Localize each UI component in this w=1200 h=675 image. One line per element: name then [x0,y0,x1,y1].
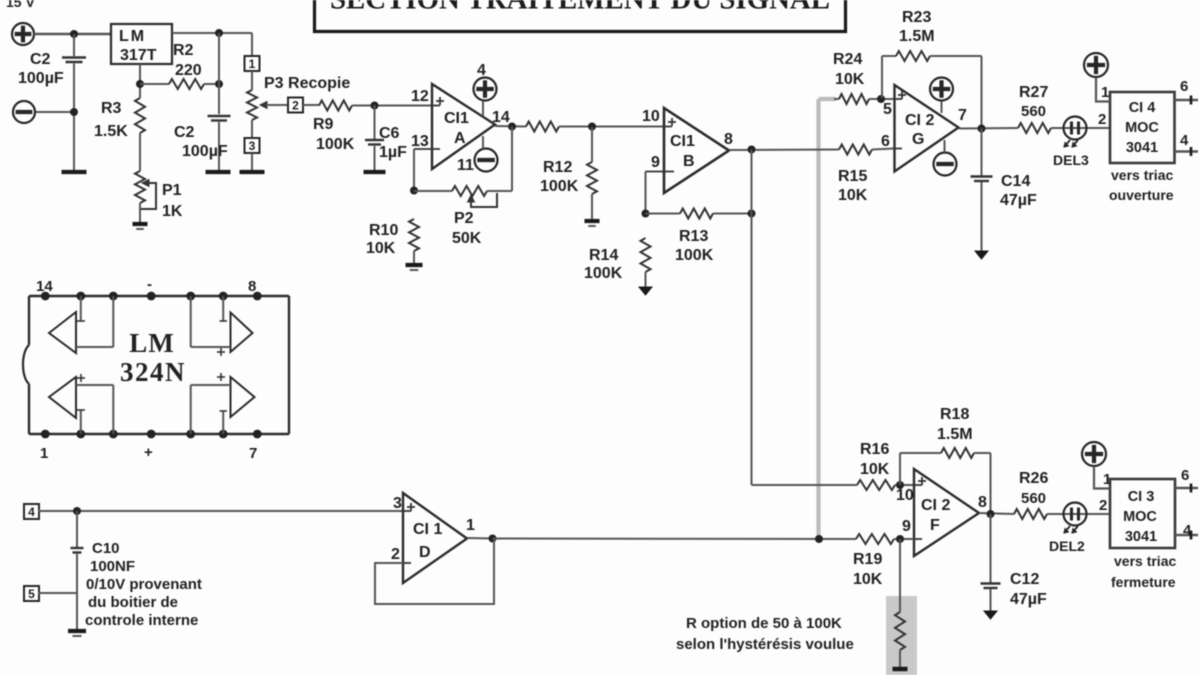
svg-text:CI 2: CI 2 [921,497,950,514]
svg-text:7: 7 [958,107,967,124]
svg-text:5: 5 [28,587,35,601]
svg-text:1: 1 [249,57,256,71]
svg-text:0/10V provenant: 0/10V provenant [86,576,202,593]
svg-text:2: 2 [1099,497,1107,514]
svg-text:1.5M: 1.5M [937,426,973,443]
svg-text:CI 1: CI 1 [413,521,442,538]
svg-text:10K: 10K [860,461,890,478]
svg-text:1K: 1K [162,203,183,220]
svg-text:1: 1 [40,445,48,462]
svg-text:P1: P1 [162,182,182,199]
svg-text:12: 12 [411,88,429,105]
svg-text:C2: C2 [174,124,195,141]
svg-text:100K: 100K [675,247,714,264]
svg-text:100µF: 100µF [182,143,228,160]
svg-text:6: 6 [881,133,890,150]
svg-text:R19: R19 [853,551,882,568]
svg-text:6: 6 [1181,467,1189,484]
svg-text:14: 14 [36,278,53,295]
svg-text:47µF: 47µF [1010,591,1047,608]
svg-text:B: B [683,153,695,170]
svg-text:R13: R13 [679,228,708,245]
svg-text:controle interne: controle interne [85,612,198,629]
svg-text:7: 7 [249,445,257,462]
svg-text:C2: C2 [30,51,51,68]
svg-text:1.5K: 1.5K [94,123,128,140]
svg-text:R18: R18 [940,406,969,423]
svg-text:10K: 10K [853,571,883,588]
svg-text:100NF: 100NF [90,558,135,575]
svg-text:R24: R24 [833,51,862,68]
svg-text:LM: LM [129,328,175,358]
svg-text:220: 220 [175,62,202,79]
svg-text:LM: LM [119,28,146,45]
svg-text:317T: 317T [120,47,157,64]
svg-text:15 V: 15 V [6,0,35,10]
svg-text:8: 8 [978,494,987,511]
svg-text:R2: R2 [173,42,194,59]
svg-text:R12: R12 [543,159,572,176]
svg-text:3041: 3041 [1126,140,1158,156]
svg-text:560: 560 [1021,103,1046,120]
svg-text:R27: R27 [1019,84,1048,101]
svg-text:selon l'hystérésis voulue: selon l'hystérésis voulue [676,636,854,653]
svg-text:CI1: CI1 [444,110,469,127]
svg-text:ouverture: ouverture [1109,187,1174,203]
svg-text:D: D [419,544,431,561]
svg-text:50K: 50K [452,230,482,247]
svg-text:C14: C14 [1001,173,1030,190]
svg-text:du boitier de: du boitier de [88,594,178,611]
svg-text:2: 2 [1098,111,1106,128]
svg-text:4: 4 [28,505,35,519]
svg-text:vers triac: vers triac [1111,167,1173,183]
svg-text:4: 4 [1180,132,1189,149]
svg-text:F: F [930,517,940,534]
svg-text:fermeture: fermeture [1111,574,1176,590]
svg-text:100K: 100K [316,136,355,153]
svg-text:6: 6 [1180,78,1188,95]
svg-text:R16: R16 [860,441,889,458]
svg-text:3: 3 [393,495,402,512]
svg-text:P2: P2 [454,210,474,227]
svg-text:R23: R23 [902,9,931,26]
svg-text:A: A [454,130,466,147]
svg-text:R14: R14 [589,247,618,264]
svg-text:1: 1 [466,517,475,534]
svg-text:2: 2 [391,546,400,563]
svg-text:-: - [147,276,152,293]
svg-text:+: + [144,444,153,461]
svg-text:vers triac: vers triac [1114,553,1176,569]
svg-text:10: 10 [642,108,660,125]
svg-text:8: 8 [248,278,256,295]
svg-text:560: 560 [1021,490,1046,507]
svg-text:R9: R9 [313,116,334,133]
svg-text:MOC: MOC [1123,509,1157,525]
svg-text:G: G [912,131,924,148]
svg-text:324N: 324N [120,357,186,387]
svg-text:9: 9 [902,518,911,535]
svg-text:14: 14 [492,109,510,126]
svg-text:C6: C6 [379,125,400,142]
svg-text:MOC: MOC [1125,120,1159,136]
svg-text:SECTION TRAITEMENT DU SIGNAL: SECTION TRAITEMENT DU SIGNAL [330,0,830,16]
svg-text:P3 Recopie: P3 Recopie [264,75,350,92]
svg-text:100K: 100K [540,178,579,195]
svg-text:100K: 100K [584,265,623,282]
svg-text:C12: C12 [1010,571,1039,588]
svg-text:C10: C10 [92,540,120,557]
svg-text:1.5M: 1.5M [899,28,935,45]
svg-text:5: 5 [883,101,892,118]
svg-text:13: 13 [411,133,429,150]
svg-text:47µF: 47µF [1000,192,1037,209]
svg-text:3: 3 [249,139,256,153]
svg-text:4: 4 [1183,522,1192,539]
svg-text:CI 3: CI 3 [1128,489,1155,505]
svg-text:2: 2 [292,99,299,113]
svg-text:1: 1 [1103,471,1111,488]
svg-text:R10: R10 [369,222,398,239]
svg-text:10K: 10K [835,71,865,88]
svg-text:9: 9 [651,154,660,171]
svg-text:3041: 3041 [1125,529,1157,545]
svg-text:10: 10 [896,487,914,504]
svg-text:8: 8 [724,131,733,148]
svg-text:DEL2: DEL2 [1049,538,1085,554]
svg-text:CI 4: CI 4 [1129,100,1156,116]
svg-text:R26: R26 [1019,470,1048,487]
svg-text:100µF: 100µF [18,70,64,87]
svg-text:R3: R3 [101,100,122,117]
svg-text:1µF: 1µF [379,144,407,161]
svg-text:11: 11 [457,157,474,174]
svg-text:CI 2: CI 2 [905,112,934,129]
svg-text:DEL3: DEL3 [1053,152,1089,168]
svg-text:R15: R15 [838,168,867,185]
svg-text:10K: 10K [838,187,868,204]
svg-text:R option de 50 à 100K: R option de 50 à 100K [686,615,842,632]
svg-text:10K: 10K [366,240,396,257]
svg-text:1: 1 [1101,84,1109,101]
svg-text:CI1: CI1 [670,133,695,150]
